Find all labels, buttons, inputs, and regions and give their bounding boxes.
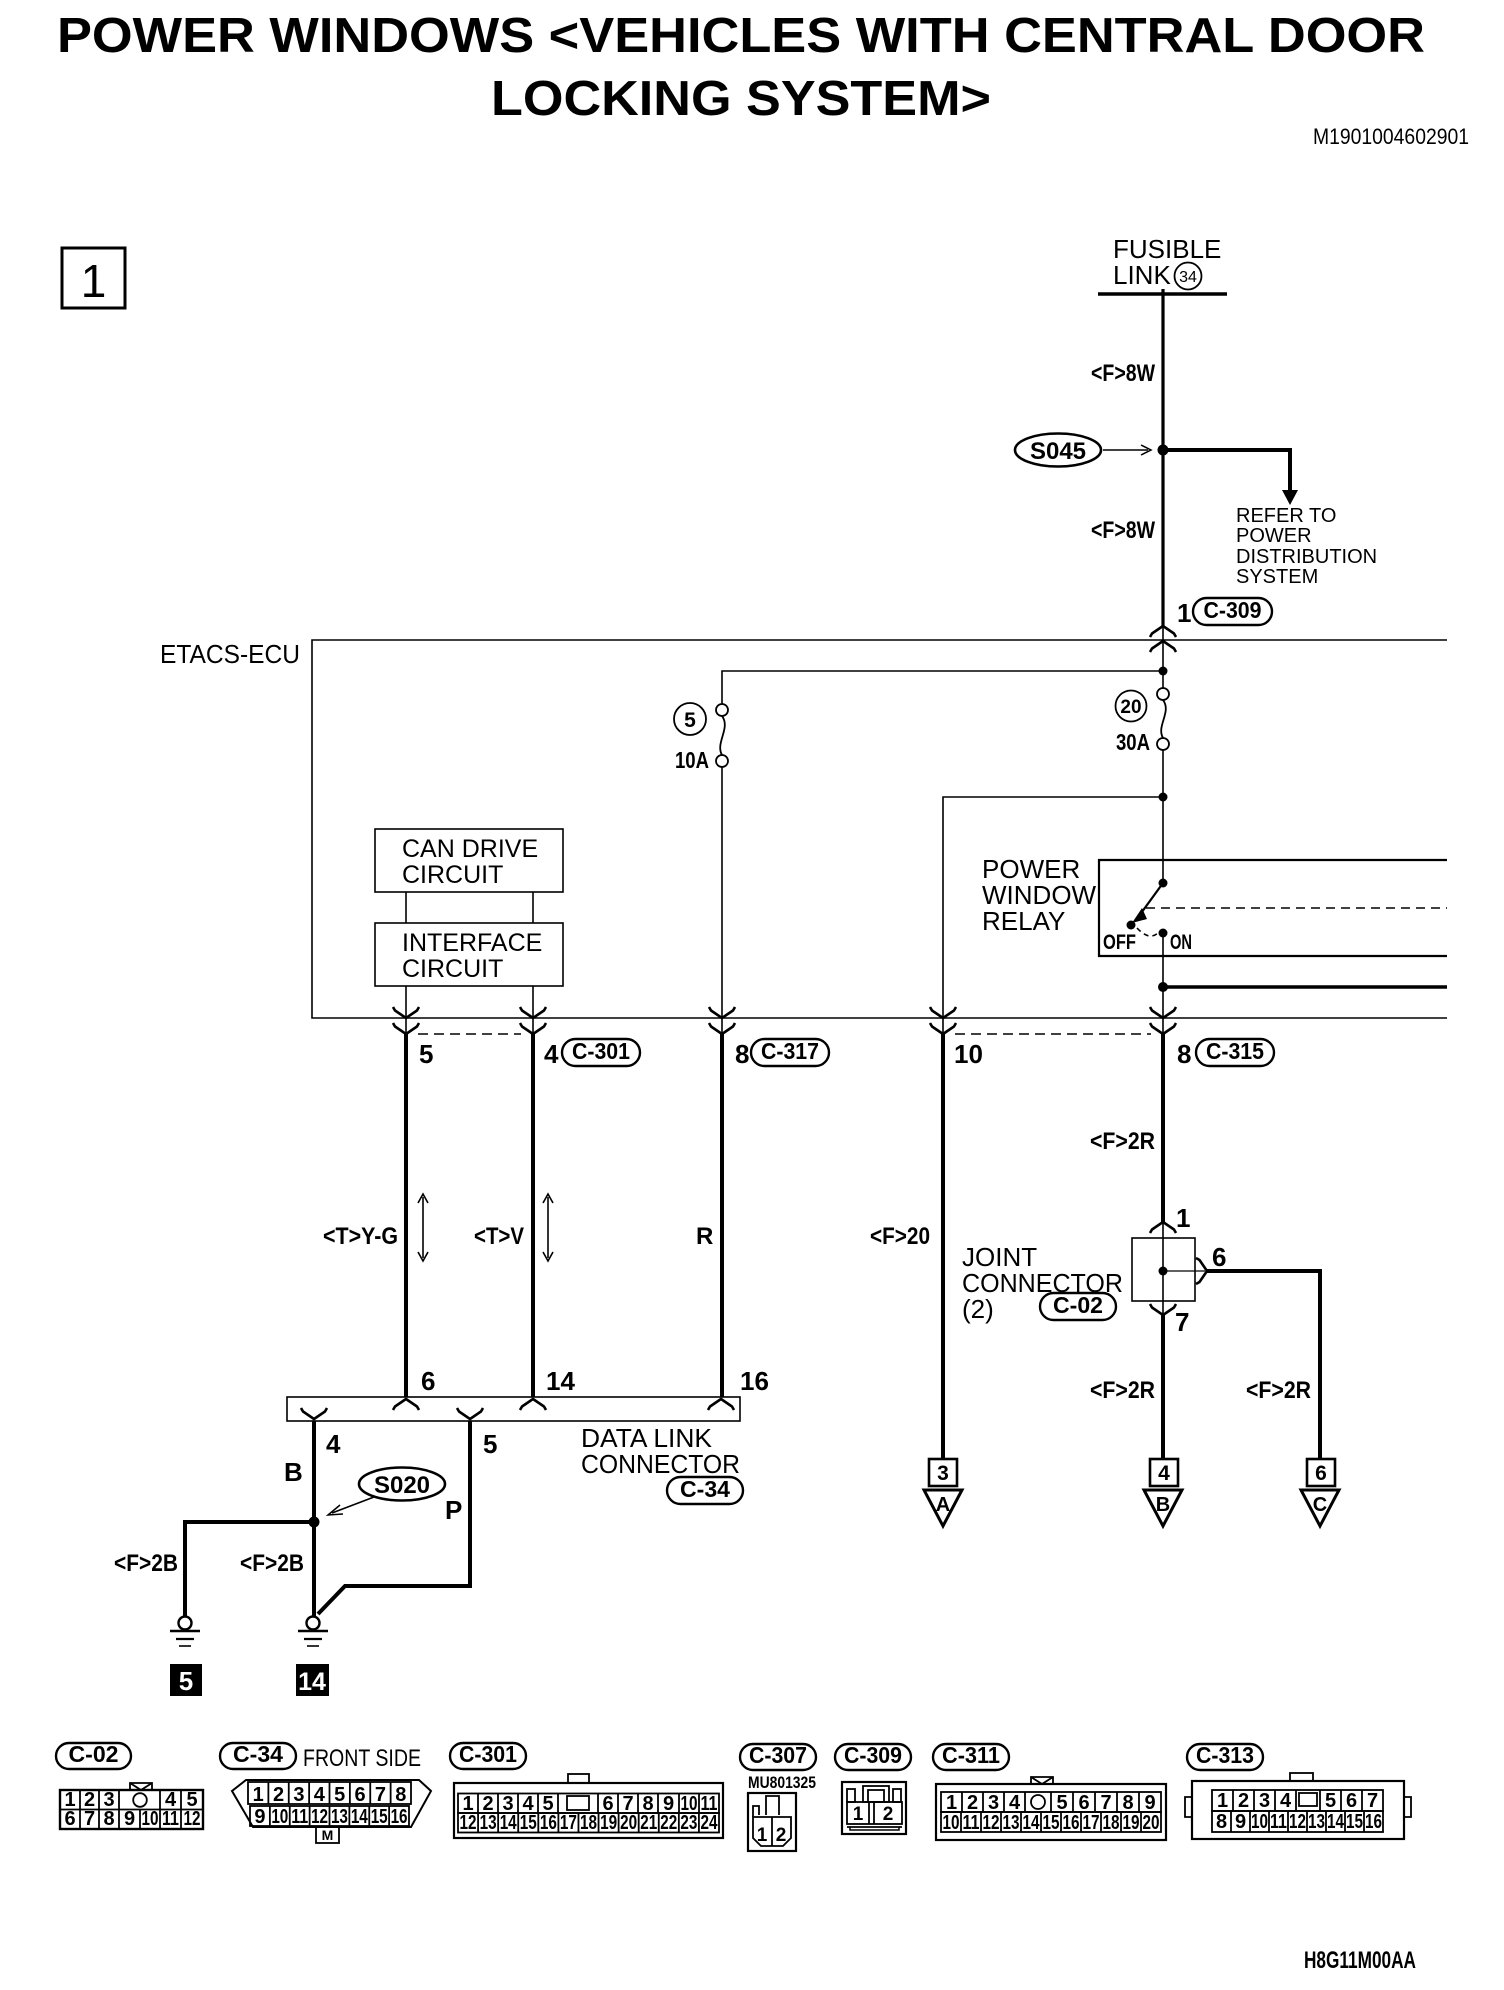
svg-text:S020: S020 [374,1472,430,1499]
junction node relay output [1158,982,1168,992]
relay switch arm [1139,883,1163,916]
svg-text:8: 8 [103,1808,114,1830]
svg-text:C-307: C-307 [749,1742,807,1768]
wire from fuse 20 to relay [1162,750,1164,883]
fusible link bus bar [1098,292,1227,295]
wire stub into joint connector [1162,1222,1164,1238]
svg-text:POWER WINDOWS <VEHICLES WITH C: POWER WINDOWS <VEHICLES WITH CENTRAL DOO… [57,9,1425,63]
svg-text:9: 9 [124,1808,135,1830]
ETACS exit chevrons pin 10 [930,1007,956,1018]
svg-text:5: 5 [179,1666,193,1696]
svg-text:8: 8 [735,1039,749,1069]
DLC chevron 5 [457,1408,483,1419]
svg-text:15: 15 [1346,1811,1363,1833]
svg-text:C-315: C-315 [1206,1038,1264,1064]
svg-text:34: 34 [1179,269,1197,286]
joint connector internal line [1163,1270,1205,1272]
junction node fuse branch [1159,667,1168,676]
svg-text:C-311: C-311 [942,1742,1000,1768]
svg-text:<F>2R: <F>2R [1090,1377,1155,1404]
ground 14 symbol [307,1617,320,1630]
fuse 5 circled number [674,703,706,735]
wire P DLC5 to ground [318,1421,470,1614]
svg-text:11: 11 [963,1812,980,1834]
diagram index box 1 [62,248,125,308]
svg-text:<F>2B: <F>2B [240,1550,304,1577]
svg-text:19: 19 [1123,1812,1140,1834]
ETACS exit chevrons pin 4 [520,1007,546,1018]
fuse 20 symbol [1157,688,1169,700]
wire R pin8 to DLC 16 [720,1034,724,1397]
connector view C-02 [130,1783,152,1790]
svg-text:2: 2 [776,1825,787,1846]
svg-text:22: 22 [660,1812,677,1834]
svg-text:8: 8 [1122,1792,1133,1814]
svg-text:C-309: C-309 [844,1742,902,1768]
svg-text:2: 2 [967,1792,978,1814]
svg-text:4: 4 [1009,1792,1021,1814]
svg-text:14: 14 [1023,1812,1041,1834]
power window relay box [1099,860,1447,956]
svg-text:13: 13 [1308,1811,1325,1833]
svg-text:C-02: C-02 [69,1741,119,1767]
svg-text:S045: S045 [1030,438,1086,465]
connector badge C-313 bottom [1187,1744,1263,1770]
ETACS exit chevrons pin 8 C-317 [709,1007,735,1018]
svg-text:<F>8W: <F>8W [1091,517,1155,544]
svg-text:11: 11 [162,1808,179,1830]
svg-text:<F>8W: <F>8W [1091,360,1155,387]
svg-text:ETACS-ECU: ETACS-ECU [160,639,300,669]
wire from fuse 5 down [721,767,723,1033]
svg-text:6: 6 [1078,1792,1089,1814]
connector badge C-34 [667,1477,743,1504]
svg-text:B: B [1156,1494,1170,1516]
svg-text:<F>2B: <F>2B [114,1550,178,1577]
fuse 5 symbol [716,704,728,716]
svg-text:DISTRIBUTION: DISTRIBUTION [1236,546,1377,568]
svg-text:3: 3 [293,1784,304,1806]
svg-text:20: 20 [620,1812,637,1834]
CAN drive circuit box [375,829,563,892]
svg-text:CONNECTOR: CONNECTOR [581,1449,740,1479]
svg-text:13: 13 [331,1806,348,1828]
svg-text:9: 9 [1144,1792,1155,1814]
svg-text:C-34: C-34 [233,1741,283,1767]
svg-text:M: M [322,1827,334,1843]
connector badge C-34 bottom [220,1743,296,1769]
svg-text:4: 4 [314,1784,326,1806]
svg-text:OFF: OFF [1103,931,1136,954]
svg-text:CIRCUIT: CIRCUIT [402,861,503,889]
connector badge C-02 bottom [56,1743,131,1769]
svg-text:16: 16 [1063,1812,1080,1834]
connector badge C-311 bottom [933,1744,1009,1770]
svg-text:10A: 10A [675,747,709,773]
off-page reference 4 B [1150,1459,1178,1486]
svg-text:18: 18 [580,1812,597,1834]
wire relay output [1162,933,1164,1033]
svg-text:<F>2R: <F>2R [1090,1128,1155,1155]
svg-text:10: 10 [943,1812,960,1834]
svg-text:14: 14 [500,1812,518,1834]
relay switch common node [1159,879,1168,888]
connector badge C-301 bottom [450,1743,526,1769]
svg-text:H8G11M00AA: H8G11M00AA [1304,1947,1416,1974]
svg-text:LOCKING SYSTEM>: LOCKING SYSTEM> [491,72,991,126]
svg-text:7: 7 [1175,1307,1189,1337]
svg-text:5: 5 [1325,1790,1336,1812]
DLC chevron 6 [393,1399,419,1410]
svg-text:CIRCUIT: CIRCUIT [402,955,503,983]
svg-text:6: 6 [64,1808,75,1830]
svg-text:C-317: C-317 [761,1038,819,1064]
svg-text:15: 15 [520,1812,537,1834]
ETACS exit chevrons pin 8 C-315 [1150,1007,1176,1018]
svg-text:10: 10 [271,1806,288,1828]
svg-text:1: 1 [1176,1203,1190,1233]
svg-text:17: 17 [560,1812,577,1834]
svg-text:<F>20: <F>20 [870,1223,930,1250]
svg-text:C-313: C-313 [1196,1742,1254,1768]
connector view C-311 [1031,1777,1053,1784]
svg-text:30A: 30A [1116,729,1150,755]
svg-text:9: 9 [254,1806,265,1828]
svg-text:1: 1 [946,1792,957,1814]
splice S020 label [359,1468,445,1501]
circled 34 [1175,263,1202,290]
wire B DLC4 to ground [312,1421,316,1616]
twisted pair arrow right [547,1197,549,1258]
arrowhead to power distribution [1282,490,1298,505]
relay OFF-ON dashed link [1137,928,1158,936]
connector chevrons C-309 [1150,626,1176,637]
svg-text:<T>V: <T>V [474,1223,524,1250]
svg-text:INTERFACE: INTERFACE [402,929,542,957]
off-page reference 6 C [1307,1459,1335,1486]
svg-text:18: 18 [1103,1812,1120,1834]
connector badge C-301 [562,1039,640,1066]
svg-text:C-34: C-34 [680,1476,730,1502]
svg-text:C-02: C-02 [1053,1292,1103,1318]
svg-text:1: 1 [853,1804,864,1825]
svg-text:RELAY: RELAY [982,906,1065,936]
svg-text:R: R [696,1223,713,1250]
svg-text:3: 3 [988,1792,999,1814]
svg-text:2: 2 [1238,1790,1249,1812]
wire CAN to interface left [405,892,407,923]
wire CAN to interface right [532,892,534,923]
ETACS exit chevrons pin 5 [393,1007,419,1018]
svg-text:4: 4 [544,1039,559,1069]
svg-text:4: 4 [1280,1790,1292,1812]
svg-text:5: 5 [334,1784,345,1806]
svg-text:15: 15 [1043,1812,1060,1834]
svg-text:11: 11 [1270,1811,1287,1833]
svg-text:2: 2 [273,1784,284,1806]
svg-text:M1901004602901: M1901004602901 [1313,124,1469,149]
joint connector box [1132,1238,1195,1301]
wire stub to fuse 20 [1162,671,1164,689]
wire <F>2R pin7 to B [1161,1315,1165,1459]
data link connector box [287,1397,740,1421]
svg-text:4: 4 [1158,1462,1170,1485]
svg-text:21: 21 [640,1812,657,1834]
svg-text:4: 4 [326,1429,341,1459]
wire interface to pin 4 [532,986,534,1033]
svg-text:8: 8 [395,1784,406,1806]
junction node S020 [309,1517,320,1528]
wire internal feed to fuse 5 [722,671,1163,704]
svg-text:2: 2 [883,1804,894,1825]
wire into ETACS [1162,626,1164,671]
off-page reference 3 A [929,1459,957,1486]
ground 5 symbol [179,1617,192,1630]
wire <T>Y-G pin5 to DLC 6 [404,1034,408,1397]
svg-text:14: 14 [351,1806,369,1828]
svg-text:1: 1 [757,1825,768,1846]
svg-text:16: 16 [1365,1811,1382,1833]
svg-text:17: 17 [1083,1812,1100,1834]
svg-text:POWER: POWER [1236,525,1312,547]
connector badge C-309 [1193,598,1272,625]
svg-text:14: 14 [1327,1811,1345,1833]
svg-text:8: 8 [1216,1811,1227,1833]
svg-text:16: 16 [540,1812,557,1834]
connector badge C-307 bottom [740,1744,816,1770]
relay coil dashed line [1146,907,1447,909]
joint connector entry chevron [1150,1222,1176,1233]
svg-text:3: 3 [1259,1790,1270,1812]
ground number 14 [296,1664,329,1696]
connector badge C-309 bottom [835,1744,911,1770]
connector badge C-315 [1196,1039,1274,1066]
connector view C-309 [842,1782,906,1834]
wire interface to pin 5 [405,986,407,1033]
svg-text:11: 11 [291,1806,308,1828]
wire <T>V pin4 to DLC 14 [531,1034,535,1397]
connector dashed tie C-301 [418,1033,521,1035]
connector view C-313 [1192,1781,1404,1839]
svg-text:7: 7 [1367,1790,1378,1812]
svg-text:12: 12 [983,1812,1000,1834]
svg-text:6: 6 [1346,1790,1357,1812]
svg-text:13: 13 [480,1812,497,1834]
svg-text:7: 7 [375,1784,386,1806]
svg-text:16: 16 [391,1806,408,1828]
svg-text:20: 20 [1143,1812,1160,1834]
svg-text:CAN DRIVE: CAN DRIVE [402,835,538,863]
svg-text:24: 24 [700,1812,718,1834]
splice S045 label [1015,434,1101,467]
svg-text:<F>2R: <F>2R [1246,1377,1311,1404]
DLC chevron 4 [301,1408,327,1419]
svg-text:5: 5 [1056,1792,1067,1814]
svg-text:12: 12 [460,1812,477,1834]
svg-text:<T>Y-G: <T>Y-G [323,1223,398,1250]
svg-text:10: 10 [142,1808,159,1830]
joint connector node [1159,1267,1168,1276]
svg-text:C-309: C-309 [1204,597,1262,623]
wire battery feed <F>8W lower [1161,450,1164,626]
wire bus to right [1163,985,1447,988]
joint connector exit chevron right [1196,1258,1207,1284]
svg-text:5: 5 [419,1039,433,1069]
svg-text:1: 1 [1177,598,1191,628]
svg-text:FRONT SIDE: FRONT SIDE [303,1745,421,1772]
joint connector exit chevron down [1150,1304,1176,1315]
svg-text:C-301: C-301 [572,1038,630,1064]
svg-text:7: 7 [1100,1792,1111,1814]
interface circuit box [375,923,563,986]
svg-text:5: 5 [483,1429,497,1459]
svg-text:14: 14 [298,1668,326,1696]
svg-text:6: 6 [1315,1462,1327,1485]
svg-text:15: 15 [371,1806,388,1828]
joint connector internal wire vertical [1162,1238,1164,1315]
svg-text:C-301: C-301 [459,1741,517,1767]
svg-text:13: 13 [1003,1812,1020,1834]
junction node relay branch [1159,793,1168,802]
wire branch to ground 5 [185,1522,314,1616]
svg-text:6: 6 [421,1366,435,1396]
connector dashed tie C-315 [955,1033,1151,1035]
relay contact ON [1159,929,1168,938]
twisted pair arrow left [422,1197,424,1258]
svg-text:B: B [284,1457,303,1487]
svg-text:P: P [445,1495,462,1525]
connector badge C-317 [751,1039,829,1066]
svg-text:1: 1 [1217,1790,1228,1812]
svg-text:C: C [1313,1494,1327,1516]
svg-text:A: A [936,1494,950,1516]
ETACS-ECU box [312,640,1447,1018]
connector view C-301 [454,1783,723,1838]
svg-text:1: 1 [81,255,107,307]
connector view C-34 [232,1780,431,1827]
svg-text:MU801325: MU801325 [748,1773,816,1792]
fuse 20 circled number [1116,691,1147,722]
svg-text:3: 3 [937,1462,949,1485]
svg-text:16: 16 [740,1366,769,1396]
svg-text:14: 14 [546,1366,575,1396]
wire pin 6 to C triangle [1207,1271,1320,1459]
arrow from S020 to splice [332,1497,374,1513]
connector view C-307 [748,1793,796,1851]
wire branch to power distribution system [1163,450,1290,492]
svg-text:(2): (2) [962,1294,994,1324]
wire <F>20 pin10 to A [941,1034,945,1459]
svg-text:12: 12 [1289,1811,1306,1833]
svg-text:20: 20 [1120,697,1141,718]
svg-text:12: 12 [311,1806,328,1828]
svg-text:5: 5 [684,709,696,732]
arrow from S045 to splice [1103,449,1148,451]
wire <F>2R to joint connector [1161,1034,1165,1222]
svg-text:10: 10 [1251,1811,1268,1833]
svg-text:10: 10 [954,1039,983,1069]
DLC chevron 14 [520,1399,546,1410]
wire battery feed <F>8W upper [1161,289,1164,450]
junction node S045 [1158,445,1169,456]
svg-text:9: 9 [1235,1811,1246,1833]
svg-text:ON: ON [1170,931,1192,954]
svg-text:12: 12 [184,1808,201,1830]
connector badge C-02 [1040,1293,1116,1320]
svg-text:SYSTEM: SYSTEM [1236,566,1318,588]
svg-text:19: 19 [600,1812,617,1834]
svg-text:8: 8 [1177,1039,1191,1069]
svg-text:7: 7 [84,1808,95,1830]
svg-text:REFER TO: REFER TO [1236,505,1336,527]
svg-text:23: 23 [680,1812,697,1834]
svg-text:6: 6 [1212,1242,1226,1272]
svg-text:6: 6 [355,1784,366,1806]
wire branch to pin 10 [943,797,1163,1033]
svg-text:1: 1 [253,1784,264,1806]
DLC chevron 16 [708,1399,734,1410]
relay contact OFF [1127,921,1136,930]
ground number 5 [170,1664,202,1696]
svg-text:LINK: LINK [1113,260,1171,290]
